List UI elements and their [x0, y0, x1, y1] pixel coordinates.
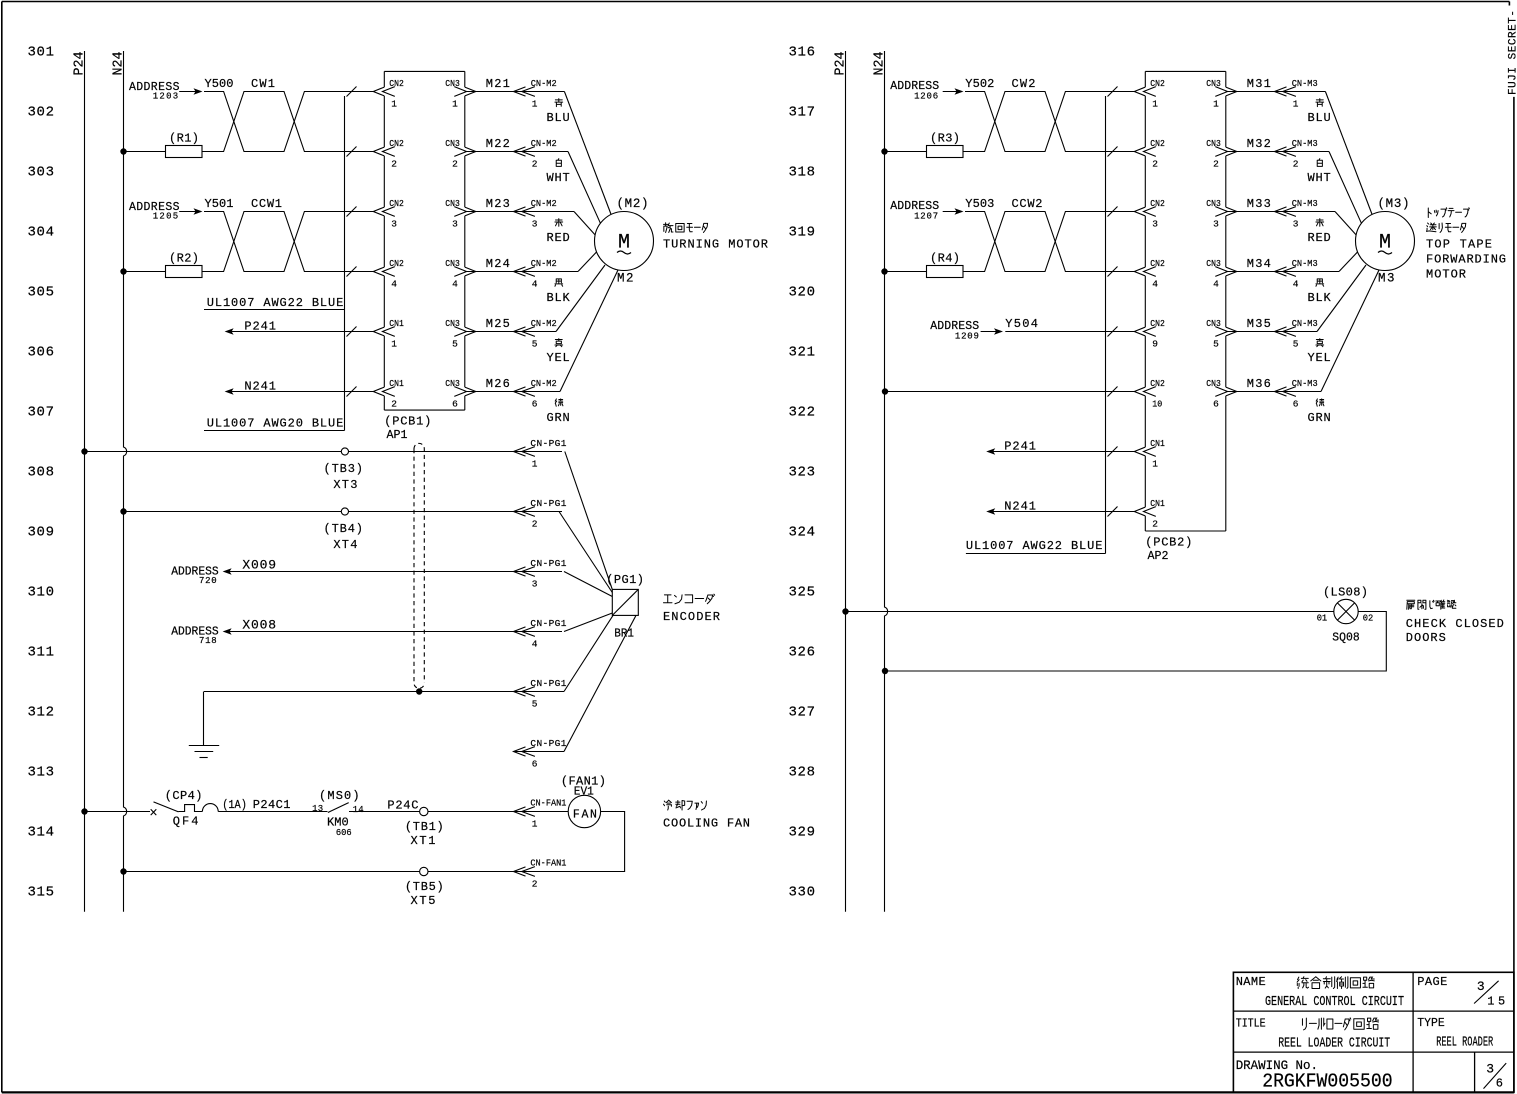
pin CN3 4 of AP1 — [445, 258, 466, 290]
svg-text:306: 306 — [28, 345, 55, 361]
svg-text:6: 6 — [1496, 1077, 1503, 1091]
svg-text:2: 2 — [532, 159, 538, 170]
pin CN2 3 of AP1 — [383, 198, 405, 230]
svg-text:5: 5 — [532, 339, 538, 350]
svg-text:N24: N24 — [112, 52, 127, 76]
junction on N24 — [120, 508, 126, 514]
title リールローダ回路 (reel loader circuit) — [1302, 1018, 1378, 1030]
svg-text:CN-M3: CN-M3 — [1292, 378, 1318, 389]
svg-text:01: 01 — [1317, 614, 1328, 624]
svg-text:CCW1: CCW1 — [251, 197, 282, 211]
svg-text:GRN: GRN — [1308, 411, 1331, 425]
title block — [1233, 972, 1514, 1092]
svg-text:4: 4 — [1152, 279, 1158, 290]
svg-text:M36: M36 — [1247, 377, 1271, 391]
svg-text:RED: RED — [547, 231, 570, 245]
svg-text:WHT: WHT — [1308, 171, 1331, 185]
wire color label 黄 YEL — [555, 339, 563, 347]
svg-text:2: 2 — [391, 399, 397, 410]
svg-text:CN-FAN1: CN-FAN1 — [530, 858, 566, 869]
svg-text:1205: 1205 — [153, 211, 179, 221]
svg-text:M31: M31 — [1247, 77, 1271, 91]
svg-text:N241: N241 — [244, 379, 276, 393]
wire fan return — [428, 812, 625, 872]
svg-text:REEL LOADER CIRCUIT: REEL LOADER CIRCUIT — [1278, 1037, 1390, 1052]
resistor R4 — [885, 252, 964, 278]
pin CN2 2 of AP2 — [1144, 138, 1166, 170]
svg-text:606: 606 — [336, 828, 352, 838]
svg-text:CN-M3: CN-M3 — [1292, 258, 1318, 269]
cable slash marks rows Y502/CW2 — [1108, 87, 1118, 97]
pin CN2 4 of AP1 — [383, 258, 405, 290]
svg-text:M24: M24 — [486, 257, 510, 271]
svg-text:13: 13 — [312, 804, 323, 814]
svg-text:DOORS: DOORS — [1406, 631, 1446, 645]
svg-text:1209: 1209 — [955, 331, 979, 341]
svg-text:QF4: QF4 — [173, 815, 199, 829]
wire color label 赤 RED — [555, 219, 563, 227]
svg-text:CN3: CN3 — [1206, 258, 1221, 269]
svg-text:CN3: CN3 — [1206, 198, 1221, 209]
svg-text:4: 4 — [532, 279, 538, 290]
svg-text:AP1: AP1 — [387, 428, 408, 442]
svg-text:CN-PG1: CN-PG1 — [530, 618, 566, 629]
svg-text:313: 313 — [28, 765, 55, 781]
junction on P24 (fan row) — [81, 808, 87, 814]
svg-text:CN-PG1: CN-PG1 — [530, 678, 566, 689]
svg-text:3: 3 — [391, 219, 397, 230]
cable shield (dashed) — [414, 443, 424, 688]
wire twisted pair Y503/CCW2 — [963, 212, 1134, 272]
svg-text:CN-M2: CN-M2 — [531, 318, 557, 329]
svg-text:1: 1 — [532, 99, 538, 110]
junction on N24 at y=271.5 — [120, 268, 126, 274]
svg-text:323: 323 — [789, 465, 816, 481]
svg-text:CN3: CN3 — [1206, 378, 1221, 389]
svg-text:CW1: CW1 — [251, 77, 275, 91]
svg-text:(M2): (M2) — [617, 197, 649, 211]
svg-text:BLK: BLK — [1308, 291, 1332, 305]
svg-text:M22: M22 — [486, 137, 510, 151]
svg-text:6: 6 — [452, 399, 458, 410]
svg-text:319: 319 — [789, 225, 816, 241]
svg-text:308: 308 — [28, 465, 55, 481]
svg-text:(R3): (R3) — [930, 132, 960, 146]
ground — [189, 692, 219, 758]
svg-text:M32: M32 — [1247, 137, 1271, 151]
label CHECK CLOSED DOORS — [1406, 617, 1504, 645]
wire color label 青 BLU — [555, 99, 563, 107]
svg-text:4: 4 — [1213, 279, 1219, 290]
pin CN2 10 of AP2 — [1144, 378, 1166, 410]
svg-text:4: 4 — [1293, 279, 1299, 290]
pin CN3 2 of AP2 — [1206, 138, 1227, 170]
connector pin CN-PG1 1 — [514, 438, 567, 470]
svg-text:324: 324 — [789, 525, 816, 541]
junction on N24 (LS08 return) — [882, 668, 888, 674]
svg-text:P24: P24 — [834, 52, 849, 76]
svg-text:RED: RED — [1308, 231, 1331, 245]
svg-text:6: 6 — [532, 759, 538, 770]
svg-text:2: 2 — [452, 159, 458, 170]
net arrow N241 — [986, 499, 1134, 514]
svg-text:P241: P241 — [244, 319, 276, 333]
svg-text:CCW2: CCW2 — [1012, 197, 1043, 211]
pin CN2 3 of AP2 — [1144, 198, 1166, 230]
wire X009 to encoder — [225, 571, 562, 573]
pin CN3 6 of AP1 — [445, 378, 466, 410]
wire M23 (pin CN-M2 3 to motor) — [465, 211, 574, 213]
svg-text:9: 9 — [1152, 339, 1158, 350]
net arrow N241 — [225, 379, 374, 394]
pin CN1 1 of AP1 — [383, 318, 405, 350]
svg-text:CN3: CN3 — [445, 78, 460, 89]
label ADDRESS 1206 — [890, 80, 963, 101]
svg-text:(PCB2): (PCB2) — [1145, 536, 1192, 550]
svg-text:Y501: Y501 — [205, 197, 234, 211]
wire X008 to encoder — [225, 631, 562, 633]
svg-text:M21: M21 — [486, 77, 510, 91]
contact KM0 (MS0) 13-14 — [312, 789, 364, 838]
svg-text:3: 3 — [1477, 979, 1485, 994]
svg-text:5: 5 — [532, 699, 538, 710]
circuit breaker QF4 (CP4) — [151, 789, 219, 829]
svg-text:CN1: CN1 — [389, 378, 404, 389]
connector pin CN-M2 4 — [514, 267, 526, 276]
pin CN3 2 of AP1 — [445, 138, 466, 170]
page number 3/15 — [1474, 979, 1505, 1009]
connector pin CN-M2 3 — [514, 207, 526, 216]
svg-text:SQ08: SQ08 — [1332, 631, 1359, 645]
svg-text:XT4: XT4 — [333, 538, 357, 552]
svg-text:CN-FAN1: CN-FAN1 — [530, 798, 566, 809]
cable slash marks rows Y500/CW1 — [347, 87, 357, 97]
pin CN3 1 of AP2 — [1206, 78, 1227, 110]
svg-text:M2: M2 — [617, 272, 634, 286]
connector pin CN-M3 4 — [1275, 267, 1287, 276]
connector pin CN-PG1 2 — [514, 498, 567, 530]
svg-text:CN-M3: CN-M3 — [1292, 138, 1318, 149]
svg-text:CN-M3: CN-M3 — [1292, 198, 1318, 209]
wire M36 (pin CN-M3 6 to motor) — [1226, 391, 1321, 393]
svg-text:PAGE: PAGE — [1417, 975, 1447, 989]
wire M24 (pin CN-M2 4 to motor) — [465, 271, 578, 273]
label 扉閉じ確認 (check closed doors) — [1407, 600, 1415, 609]
svg-text:1: 1 — [1293, 99, 1299, 110]
svg-text:(R4): (R4) — [930, 252, 960, 266]
junction shield drain — [416, 688, 422, 694]
svg-text:312: 312 — [28, 705, 55, 721]
svg-text:3: 3 — [1293, 219, 1299, 230]
connector pin CN-M3 6 — [1275, 387, 1287, 396]
svg-text:(PCB1): (PCB1) — [384, 415, 431, 429]
svg-text:EV1: EV1 — [574, 785, 594, 799]
connector pin CN-FAN1 1 — [514, 798, 567, 830]
wire color label 黄 YEL — [1316, 339, 1324, 347]
svg-text:302: 302 — [28, 105, 55, 121]
svg-text:P24: P24 — [73, 52, 88, 76]
wire lamp return to N24 — [887, 612, 1386, 672]
wire P24 to lamp SQ08 — [846, 611, 1334, 613]
wire shield drain — [204, 691, 514, 693]
wire N24 to CN2 10 — [885, 391, 1134, 393]
svg-text:3: 3 — [1486, 1062, 1494, 1077]
cable trunk to PCB2 — [1105, 96, 1107, 554]
svg-text:P24C1: P24C1 — [253, 798, 291, 812]
svg-text:CN-M3: CN-M3 — [1292, 318, 1318, 329]
fan EV1 (FAN1) — [561, 775, 606, 828]
svg-text:10: 10 — [1152, 399, 1162, 410]
svg-text:BR1: BR1 — [614, 627, 634, 641]
wire CN-PG1 1 to encoder — [565, 452, 613, 590]
svg-text:Y502: Y502 — [965, 77, 994, 91]
cable slash marks rows Y501/CCW1 — [347, 207, 357, 217]
junction on N24 (fan return) — [120, 868, 126, 874]
wire M34 (pin CN-M3 4 to motor) — [1226, 271, 1339, 273]
label TOP TAPE FORWARDING MOTOR — [1426, 238, 1506, 282]
pin CN2 1 of AP2 — [1144, 78, 1166, 110]
wire twisted pair Y502/CW2 — [963, 92, 1134, 152]
svg-text:720: 720 — [199, 576, 217, 586]
svg-text:P24C: P24C — [387, 799, 418, 813]
svg-text:1: 1 — [391, 339, 397, 350]
connector pin CN-PG1 6 — [514, 738, 567, 770]
label 旋回モータ (turning motor) — [664, 223, 673, 233]
connector pin CN-M3 5 — [1275, 327, 1287, 336]
cable slash mark N241 — [347, 387, 357, 397]
svg-text:2: 2 — [1293, 159, 1299, 170]
terminal XT4 (TB4) — [324, 508, 364, 552]
svg-text:(TB1): (TB1) — [405, 820, 444, 834]
connector pin CN-M2 2 — [514, 147, 526, 156]
connector pin CN-PG1 4 — [514, 618, 567, 650]
svg-text:CN1: CN1 — [389, 318, 404, 329]
svg-text:2: 2 — [532, 879, 538, 890]
svg-text:309: 309 — [28, 525, 55, 541]
pin CN2 9 of AP2 — [1144, 318, 1166, 350]
IC AP1 connector box (PCB1) — [373, 71, 476, 410]
svg-text:N241: N241 — [1004, 499, 1036, 513]
pin CN2 4 of AP2 — [1144, 258, 1166, 290]
svg-text:FUJI SECRET-: FUJI SECRET- — [1508, 10, 1517, 95]
svg-text:(LS08): (LS08) — [1323, 586, 1368, 600]
svg-text:CN-M2: CN-M2 — [531, 378, 557, 389]
wire P24 to breaker — [85, 811, 151, 813]
svg-text:CN1: CN1 — [1150, 498, 1165, 509]
svg-text:N24: N24 — [873, 52, 888, 76]
resistor R3 — [885, 132, 964, 158]
terminal XT5 (TB5) — [405, 867, 444, 908]
svg-text:314: 314 — [28, 825, 55, 841]
svg-text:CN2: CN2 — [1150, 138, 1165, 149]
svg-text:329: 329 — [789, 825, 816, 841]
wire CN-PG1 6 to encoder — [514, 751, 565, 753]
cable slash mark N241 — [1108, 507, 1118, 517]
wire color label 黒 BLK — [1316, 279, 1324, 286]
svg-text:CN2: CN2 — [389, 258, 404, 269]
cable label UL1007 AWG22 BLUE (right) — [966, 539, 1106, 554]
svg-text:CN2: CN2 — [389, 138, 404, 149]
svg-text:X008: X008 — [242, 618, 276, 633]
wire CN-PG1 3 to encoder — [564, 572, 612, 597]
junction on N24 at y=151.5 — [120, 148, 126, 154]
svg-text:FORWARDING: FORWARDING — [1426, 253, 1506, 267]
svg-text:X009: X009 — [242, 558, 276, 573]
svg-text:CN2: CN2 — [389, 198, 404, 209]
svg-text:CN2: CN2 — [1150, 378, 1165, 389]
svg-text:CN-PG1: CN-PG1 — [530, 438, 566, 449]
svg-text:M33: M33 — [1247, 197, 1271, 211]
label ADDRESS 1203 -> Y500 — [129, 81, 203, 101]
svg-text:310: 310 — [28, 585, 55, 601]
net arrow P241 — [986, 439, 1134, 454]
motor M3 — [1356, 212, 1415, 271]
svg-text:321: 321 — [789, 345, 816, 361]
pin CN2 1 of AP1 — [383, 78, 405, 110]
encoder PG1 — [612, 589, 638, 615]
svg-text:CN-M2: CN-M2 — [531, 258, 557, 269]
svg-text:2: 2 — [1152, 519, 1158, 530]
svg-text:(R2): (R2) — [169, 252, 199, 266]
svg-text:2: 2 — [532, 519, 538, 530]
svg-text:FAN: FAN — [573, 809, 597, 822]
svg-text:COOLING FAN: COOLING FAN — [663, 817, 750, 831]
connector pin CN-M3 3 — [1275, 207, 1287, 216]
svg-text:XT5: XT5 — [411, 894, 436, 908]
svg-text:BLK: BLK — [547, 291, 571, 305]
svg-text:ENCODER: ENCODER — [663, 610, 720, 624]
svg-text:317: 317 — [789, 105, 816, 121]
wire M32 (pin CN-M3 2 to motor) — [1226, 151, 1329, 153]
svg-text:Y503: Y503 — [965, 197, 994, 211]
svg-text:CN2: CN2 — [1150, 198, 1165, 209]
svg-text:1: 1 — [1152, 99, 1158, 110]
svg-text:CN3: CN3 — [445, 318, 460, 329]
power bus N24 — [124, 51, 127, 912]
svg-text:M35: M35 — [1247, 317, 1271, 331]
svg-text:6: 6 — [532, 399, 538, 410]
svg-text:307: 307 — [28, 405, 55, 421]
svg-text:XT3: XT3 — [333, 478, 357, 492]
svg-text:YEL: YEL — [1308, 351, 1331, 365]
lamp LS08 / SQ08 — [1317, 586, 1374, 645]
resistor R2 — [124, 252, 203, 278]
svg-text:320: 320 — [789, 285, 816, 301]
svg-text:322: 322 — [789, 405, 816, 421]
cable label UL1007 AWG20 BLUE — [204, 417, 345, 431]
svg-text:Y500: Y500 — [205, 77, 234, 91]
svg-text:AP2: AP2 — [1148, 549, 1169, 563]
terminal XT1 (TB1) — [405, 807, 444, 848]
wire CN-PG1 2 to encoder — [559, 512, 612, 593]
wire M35 (pin CN-M3 5 to motor) — [1226, 331, 1317, 333]
svg-text:TURNING MOTOR: TURNING MOTOR — [663, 238, 768, 252]
svg-text:UL1007 AWG22 BLUE: UL1007 AWG22 BLUE — [966, 539, 1103, 553]
cable label UL1007 AWG22 BLUE — [204, 296, 345, 310]
svg-text:CN-PG1: CN-PG1 — [530, 498, 566, 509]
wire CN-PG1 4 to encoder — [564, 613, 612, 632]
svg-text:4: 4 — [391, 279, 397, 290]
svg-text:NAME: NAME — [1236, 975, 1266, 989]
svg-text:REEL ROADER: REEL ROADER — [1436, 1036, 1493, 1051]
svg-text:Y504: Y504 — [1005, 317, 1038, 331]
svg-text:CHECK CLOSED: CHECK CLOSED — [1406, 617, 1504, 631]
junction on N24 at y=271.5 — [881, 268, 887, 274]
wire color label 赤 RED — [1316, 219, 1324, 227]
svg-text:1: 1 — [452, 99, 458, 110]
label エンコーダ (encoder) — [663, 595, 672, 603]
label ADDRESS 720 <- X009 — [171, 566, 231, 587]
svg-text:(1A): (1A) — [222, 798, 247, 812]
svg-text:02: 02 — [1363, 614, 1374, 624]
power bus N24 — [885, 51, 888, 912]
junction on N24 at y=151.5 — [881, 148, 887, 154]
svg-text:CN-M2: CN-M2 — [531, 198, 557, 209]
wire M22 (pin CN-M2 2 to motor) — [465, 151, 568, 153]
pin CN1 2 of AP1 — [383, 378, 405, 410]
svg-text:(CP4): (CP4) — [165, 789, 203, 803]
wire XT5 to N24 — [124, 871, 420, 873]
svg-text:305: 305 — [28, 285, 55, 301]
svg-text:6: 6 — [1293, 399, 1299, 410]
svg-text:M34: M34 — [1247, 257, 1271, 271]
sheet number 3/6 — [1484, 1062, 1507, 1091]
wire M25 (pin CN-M2 5 to motor) — [465, 331, 556, 333]
junction on N24 (CN2 10) — [882, 388, 888, 394]
svg-text:CN2: CN2 — [1150, 258, 1165, 269]
svg-text:327: 327 — [789, 705, 816, 721]
svg-text:CN3: CN3 — [445, 138, 460, 149]
wire color label 白 WHT — [556, 159, 561, 167]
svg-text:1: 1 — [1213, 99, 1219, 110]
svg-text:718: 718 — [199, 636, 217, 646]
svg-text:(M3): (M3) — [1378, 197, 1410, 211]
wire color label 白 WHT — [1317, 159, 1322, 167]
connector pin CN-FAN1 2 — [514, 858, 567, 890]
pin CN2 2 of AP1 — [383, 138, 405, 170]
svg-text:CN3: CN3 — [1206, 138, 1221, 149]
label ADDRESS 718 <- X008 — [171, 626, 231, 647]
svg-text:(PG1): (PG1) — [606, 573, 644, 587]
svg-text:301: 301 — [28, 45, 55, 61]
pin CN3 3 of AP1 — [445, 198, 466, 230]
cable slash marks rows Y503/CCW2 — [1108, 207, 1118, 217]
svg-text:M25: M25 — [486, 317, 510, 331]
wire Y504 to CN2 9 — [1005, 331, 1134, 333]
svg-text:YEL: YEL — [547, 351, 570, 365]
power bus P24 — [845, 51, 847, 912]
pin CN3 1 of AP1 — [445, 78, 466, 110]
label ADDRESS 1207 — [890, 200, 963, 221]
svg-text:1: 1 — [532, 459, 538, 470]
wire color label 緑 GRN — [1316, 399, 1324, 406]
svg-text:CN2: CN2 — [389, 78, 404, 89]
wire color label 青 BLU — [1316, 99, 1324, 107]
svg-text:CN3: CN3 — [1206, 318, 1221, 329]
svg-text:14: 14 — [353, 805, 364, 815]
wire color label 緑 GRN — [555, 399, 563, 406]
svg-text:(TB5): (TB5) — [405, 880, 444, 894]
svg-text:3: 3 — [1213, 219, 1219, 230]
svg-text:2: 2 — [1152, 159, 1158, 170]
svg-text:2RGKFW005500: 2RGKFW005500 — [1262, 1071, 1393, 1093]
pin CN3 4 of AP2 — [1206, 258, 1227, 290]
wire M21 (pin CN-M2 1 to motor) — [465, 91, 565, 93]
pin CN3 3 of AP2 — [1206, 198, 1227, 230]
connector pin CN-M3 1 — [1275, 87, 1287, 96]
connector pin CN-M2 6 — [514, 387, 526, 396]
svg-text:(TB4): (TB4) — [324, 522, 364, 536]
